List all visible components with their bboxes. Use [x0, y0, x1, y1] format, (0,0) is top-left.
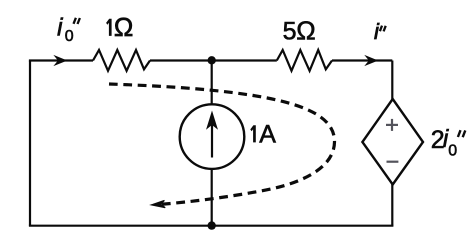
wire: middle vertical upper (node to current source): [211, 61, 213, 106]
node A: top junction dot: [208, 56, 216, 64]
label 1 ohm : custom narrow 1 + omega: [106, 12, 133, 42]
svg-text:Ω: Ω: [296, 16, 315, 46]
wire: right vertical lower (from diamond): [391, 184, 393, 226]
label 2i0'' (dependent source value): [431, 125, 466, 160]
plus sign of dependent source: [386, 119, 398, 131]
wire: top-right segment: [332, 59, 392, 61]
wire: bottom horizontal: [29, 225, 394, 227]
label 1A (current source value): [250, 120, 276, 148]
dashed loop arrowhead: [151, 200, 165, 207]
resistor R1 1ohm: [93, 50, 150, 71]
wire: left vertical: [29, 61, 31, 226]
wire: top-middle segment: [150, 59, 277, 61]
dashed mesh-current loop: [109, 84, 335, 205]
svg-text:0: 0: [65, 28, 74, 45]
label i'' (top-right current): [374, 19, 386, 44]
wire: right vertical upper (to diamond): [391, 61, 393, 101]
node B: bottom junction dot: [208, 221, 216, 229]
wire: middle vertical lower (current source to bottom node): [211, 169, 213, 226]
dependent source U1 diamond: [362, 99, 423, 185]
resistor R2 5ohm: [277, 50, 332, 71]
label i0'' (top-left current): [57, 13, 80, 45]
wire arrow: i current direction (top-right): [366, 56, 377, 64]
svg-text:Ω: Ω: [114, 12, 133, 42]
svg-text:i: i: [374, 19, 380, 44]
svg-text:A: A: [259, 120, 276, 148]
current source I1 arrow: [207, 112, 217, 157]
wire arrow: i0 current direction (top-left): [55, 56, 66, 64]
svg-text:5: 5: [283, 18, 297, 46]
svg-text:i: i: [57, 13, 64, 41]
wire: top-left segment: [29, 59, 93, 61]
label 5 ohm: [283, 16, 316, 46]
svg-text:0: 0: [448, 143, 457, 160]
minus sign of dependent source: [387, 161, 399, 163]
current source I1 circle: [180, 104, 245, 169]
